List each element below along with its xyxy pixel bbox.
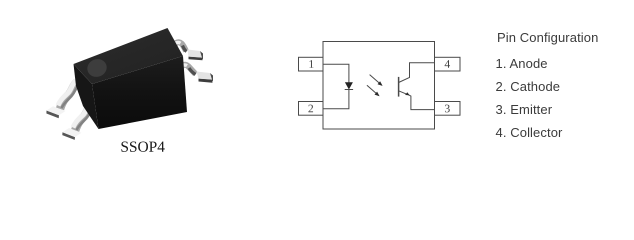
light arrow upper (370, 75, 383, 86)
package body top face (74, 28, 184, 84)
phototransistor Q1 (399, 63, 435, 110)
wire pin2 to LED cathode (323, 90, 349, 109)
pin1 dimple (85, 56, 109, 79)
pin box 4 (435, 57, 461, 71)
pin box 2 (299, 102, 324, 116)
SSOP4 package photo (40, 20, 220, 142)
lead pin upper-right (173, 42, 203, 60)
schematic (290, 35, 470, 135)
pin configuration text (497, 26, 598, 49)
pin box 1 (299, 57, 324, 71)
light arrow lower (367, 85, 380, 96)
pin box 3 (435, 102, 461, 116)
lead pin lower-right (180, 65, 214, 83)
LED D1 (345, 82, 353, 89)
lead pin upper-left (46, 81, 79, 119)
lead pin lower-left (62, 103, 94, 140)
package body left end face (74, 64, 99, 129)
package body front face (92, 56, 187, 129)
wire pin1 to LED anode (323, 64, 349, 82)
IC body outline (323, 42, 435, 130)
